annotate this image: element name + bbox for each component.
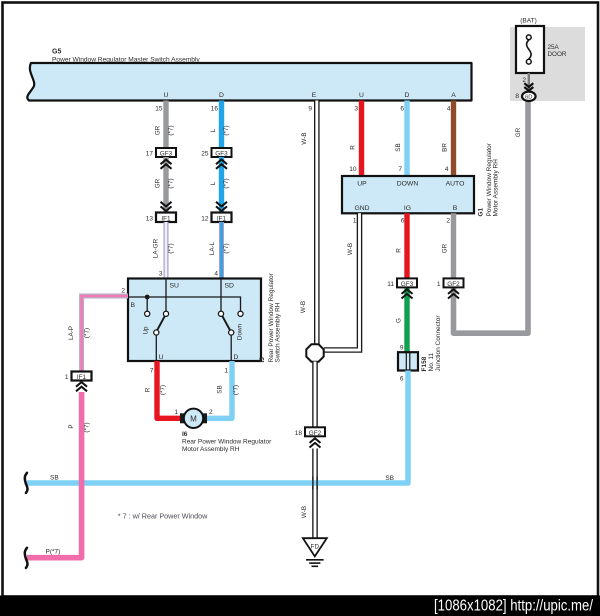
svg-text:(BAT): (BAT) bbox=[520, 18, 537, 25]
svg-text:R: R bbox=[145, 387, 152, 392]
chevrons down above IF1 12 bbox=[216, 202, 227, 211]
svg-text:Motor Assembly RH: Motor Assembly RH bbox=[493, 159, 500, 217]
svg-text:GF2: GF2 bbox=[447, 281, 460, 288]
svg-text:G1: G1 bbox=[478, 207, 485, 216]
svg-text:P: P bbox=[68, 424, 75, 428]
svg-text:7: 7 bbox=[398, 166, 402, 173]
junction node bbox=[306, 344, 323, 361]
W-B rails over SB crossing bbox=[313, 477, 317, 490]
svg-text:(*7): (*7) bbox=[223, 243, 230, 253]
pin 16 bbox=[211, 106, 219, 113]
svg-text:2: 2 bbox=[522, 77, 526, 84]
chevrons down above IF1 13 bbox=[161, 202, 172, 211]
chevrons up below GF3 11 bbox=[402, 289, 413, 298]
svg-text:I6: I6 bbox=[182, 431, 188, 438]
svg-text:AUTO: AUTO bbox=[446, 181, 465, 188]
svg-text:11: 11 bbox=[387, 281, 394, 288]
wire fuse to connector 6D bbox=[522, 73, 528, 92]
svg-text:9: 9 bbox=[400, 345, 404, 352]
svg-text:[1086x1082] http://upic.me/: [1086x1082] http://upic.me/ bbox=[434, 598, 594, 615]
chevrons up below GF3 17 bbox=[161, 160, 172, 169]
svg-text:GND: GND bbox=[354, 205, 369, 212]
svg-text:GF3: GF3 bbox=[401, 281, 414, 288]
wire W-B from band E9 to junction node bbox=[300, 101, 317, 345]
connector GF2 18 bbox=[295, 427, 325, 437]
motor pin 2 bbox=[209, 409, 213, 416]
svg-text:6: 6 bbox=[400, 106, 404, 113]
junction connector F158 bbox=[398, 352, 418, 370]
svg-text:(*7): (*7) bbox=[223, 178, 230, 188]
svg-text:LA-P: LA-P bbox=[68, 326, 75, 340]
F158 rotated designation bbox=[421, 315, 442, 372]
connector GF2 1 bbox=[437, 278, 464, 288]
svg-text:SB: SB bbox=[395, 143, 402, 151]
connector GF3 25 bbox=[201, 148, 231, 158]
svg-text:F158: F158 bbox=[421, 356, 428, 371]
svg-text:D: D bbox=[234, 354, 239, 361]
svg-text:L: L bbox=[210, 128, 217, 132]
svg-text:9: 9 bbox=[308, 106, 312, 113]
svg-text:10: 10 bbox=[349, 166, 357, 173]
motor pin 1 bbox=[174, 409, 178, 416]
svg-text:U: U bbox=[159, 354, 164, 361]
fuse 25A DOOR bbox=[516, 26, 567, 73]
connector oval 6D bbox=[515, 92, 535, 101]
pin 6 F158 bbox=[400, 376, 404, 383]
svg-text:A: A bbox=[451, 92, 456, 99]
wire W-B node to GF2 18 bbox=[312, 362, 318, 428]
connector IF1 13 bbox=[146, 213, 176, 223]
connector IF1 12 bbox=[201, 213, 231, 223]
svg-text:Rear Power Window Regulator: Rear Power Window Regulator bbox=[182, 439, 272, 446]
svg-text:SD: SD bbox=[225, 283, 235, 290]
svg-text:No. 11: No. 11 bbox=[428, 352, 435, 371]
svg-text:SB: SB bbox=[217, 385, 224, 393]
svg-text:1: 1 bbox=[65, 374, 69, 381]
wire LA-GR IF1 to switch pin3 bbox=[153, 222, 175, 279]
chevrons up below GF3 25 bbox=[216, 160, 227, 169]
switch box I5 Rear Power Window Regulator Switch Assembly RH bbox=[128, 279, 261, 362]
svg-text:16: 16 bbox=[211, 106, 219, 113]
svg-text:Down: Down bbox=[237, 323, 244, 340]
svg-text:IF1: IF1 bbox=[161, 216, 171, 223]
svg-text:12: 12 bbox=[201, 216, 209, 223]
svg-text:(*7): (*7) bbox=[168, 125, 175, 135]
svg-text:DOOR: DOOR bbox=[548, 51, 567, 58]
svg-text:G: G bbox=[396, 318, 403, 323]
svg-text:7: 7 bbox=[150, 368, 154, 375]
chevrons up below GF2 18 bbox=[310, 438, 321, 447]
svg-text:2: 2 bbox=[209, 409, 213, 416]
svg-text:6D: 6D bbox=[525, 94, 532, 100]
svg-text:LA-GR: LA-GR bbox=[153, 238, 160, 258]
pin 7 switch U bbox=[150, 368, 154, 375]
svg-text:6: 6 bbox=[400, 376, 404, 383]
svg-text:1: 1 bbox=[174, 409, 178, 416]
svg-text:2: 2 bbox=[121, 288, 125, 295]
ground FD bbox=[303, 538, 327, 566]
svg-text:E: E bbox=[312, 92, 317, 99]
break squiggle SB bbox=[25, 473, 28, 493]
wire SB F158 to left break bbox=[27, 371, 408, 484]
G5 title bbox=[52, 49, 200, 64]
svg-text:1: 1 bbox=[224, 368, 228, 375]
pin 6 IG bbox=[401, 218, 405, 225]
label Down bbox=[237, 323, 244, 340]
svg-text:6: 6 bbox=[401, 218, 405, 225]
svg-text:B: B bbox=[453, 205, 458, 212]
svg-text:17: 17 bbox=[146, 151, 154, 158]
wire R switch to motor bbox=[145, 361, 183, 418]
pin 2 B bbox=[446, 218, 450, 225]
svg-text:(*7): (*7) bbox=[84, 328, 91, 338]
svg-text:GR: GR bbox=[155, 178, 162, 188]
svg-text:GR: GR bbox=[442, 243, 449, 253]
svg-text:Up: Up bbox=[143, 326, 150, 335]
svg-text:1: 1 bbox=[437, 281, 441, 288]
svg-text:R: R bbox=[350, 145, 357, 150]
svg-text:DOWN: DOWN bbox=[397, 181, 419, 188]
solid arrows down above 6D bbox=[524, 83, 533, 91]
svg-text:(*7): (*7) bbox=[168, 178, 175, 188]
svg-text:3: 3 bbox=[159, 271, 163, 278]
wire L GF3 to IF1 bbox=[210, 157, 230, 213]
svg-text:FD: FD bbox=[311, 544, 320, 551]
svg-text:LA-L: LA-L bbox=[209, 241, 216, 255]
G1 rotated designation bbox=[478, 142, 500, 216]
svg-text:W-B: W-B bbox=[301, 132, 308, 144]
svg-text:(*7): (*7) bbox=[160, 385, 167, 395]
svg-text:(*7): (*7) bbox=[233, 385, 240, 395]
wire SB switch to motor bbox=[205, 361, 240, 418]
chevrons up below GF2 1 bbox=[448, 289, 459, 298]
I6 designation bbox=[182, 431, 272, 453]
svg-text:15: 15 bbox=[155, 106, 163, 113]
watermark bar bbox=[0, 596, 600, 616]
wire SB band D6 to G1 DOWN bbox=[395, 101, 407, 177]
svg-text:GR: GR bbox=[155, 125, 162, 135]
svg-text:Motor Assembly RH: Motor Assembly RH bbox=[182, 446, 240, 453]
wire W-B GF2 18 to ground FD bbox=[301, 449, 315, 540]
junction dot B bbox=[145, 295, 150, 300]
I5 rotated designation bbox=[259, 272, 281, 362]
note *7 w/ Rear Power Window bbox=[118, 512, 208, 521]
pin 15 bbox=[155, 106, 163, 113]
svg-text:D: D bbox=[405, 92, 410, 99]
svg-text:W-B: W-B bbox=[301, 506, 308, 518]
chevrons up below IF1 1 bbox=[76, 382, 87, 391]
pin 1 GND bbox=[353, 218, 357, 225]
pin 2 switch B bbox=[121, 288, 125, 295]
svg-text:U: U bbox=[359, 92, 364, 99]
pin 9 bbox=[308, 106, 312, 113]
svg-text:18: 18 bbox=[295, 430, 303, 437]
svg-text:8: 8 bbox=[515, 93, 519, 100]
wire P IF1 1 to bottom left break bbox=[27, 392, 91, 558]
svg-text:GR: GR bbox=[515, 127, 522, 137]
wire GR GF3 to IF1 bbox=[155, 157, 175, 213]
box G1 Power Window Regulator Motor Assembly RH bbox=[342, 176, 474, 213]
svg-text:4: 4 bbox=[214, 271, 218, 278]
svg-text:2: 2 bbox=[446, 218, 450, 225]
svg-text:4: 4 bbox=[445, 166, 449, 173]
wire R G1 IG to GF3 11 bbox=[396, 213, 408, 278]
wire BR band A4 to G1 AUTO bbox=[442, 101, 454, 177]
switch contacts bbox=[145, 311, 244, 335]
pin 3 bbox=[354, 106, 358, 113]
motor I6 bbox=[180, 409, 207, 428]
svg-text:I5: I5 bbox=[259, 357, 266, 363]
svg-text:UP: UP bbox=[357, 181, 367, 188]
wire LA-L IF1 to switch pin4 bbox=[209, 222, 230, 279]
svg-text:M: M bbox=[190, 414, 197, 423]
svg-text:* 7 : w/ Rear Power Window: * 7 : w/ Rear Power Window bbox=[118, 512, 208, 521]
svg-text:BR: BR bbox=[442, 143, 449, 152]
wire GR G1 B to GF2 1 bbox=[442, 213, 454, 278]
connector IF1 1 bbox=[65, 372, 92, 382]
svg-text:D: D bbox=[219, 92, 224, 99]
pin 4 bbox=[447, 106, 451, 113]
connector band G5 Power Window Regulator Master Switch Assembly bbox=[27, 63, 471, 101]
pin 6 bbox=[400, 106, 404, 113]
svg-text:L: L bbox=[210, 181, 217, 185]
svg-text:R: R bbox=[396, 248, 403, 253]
label Up bbox=[143, 326, 150, 335]
wire GR from band U15 to GF3 bbox=[155, 101, 175, 149]
svg-text:(*7): (*7) bbox=[84, 422, 91, 432]
svg-text:SB: SB bbox=[50, 475, 59, 482]
svg-text:4: 4 bbox=[447, 106, 451, 113]
svg-text:IG: IG bbox=[404, 205, 411, 212]
wire GR GF2 1 to fuse block loop bbox=[454, 100, 529, 333]
svg-text:13: 13 bbox=[146, 216, 154, 223]
connector GF3 11 bbox=[387, 278, 417, 288]
switch blade Down bbox=[222, 316, 230, 331]
connector GF3 17 bbox=[146, 148, 176, 158]
svg-text:GF2: GF2 bbox=[309, 430, 322, 437]
svg-text:U: U bbox=[164, 92, 169, 99]
svg-text:B: B bbox=[131, 302, 136, 309]
svg-text:G5: G5 bbox=[52, 49, 61, 56]
wire G green GF3 11 to F158 bbox=[396, 287, 408, 352]
wire W-B G1 GND to junction node bbox=[324, 213, 360, 350]
switch internal wiring bbox=[128, 279, 241, 362]
svg-text:P(*7): P(*7) bbox=[46, 549, 61, 556]
svg-text:1: 1 bbox=[353, 218, 357, 225]
wire LA-P from switch to IF1 1 bbox=[68, 296, 128, 372]
wire R band U3 to G1 UP bbox=[349, 101, 361, 177]
svg-text:IF1: IF1 bbox=[217, 216, 227, 223]
svg-text:25: 25 bbox=[201, 151, 209, 158]
svg-text:SU: SU bbox=[170, 283, 180, 290]
svg-text:GF3: GF3 bbox=[215, 151, 228, 158]
wire L from band D16 to GF3 bbox=[210, 101, 230, 149]
svg-text:W-B: W-B bbox=[300, 301, 307, 313]
label (BAT) bbox=[520, 18, 537, 25]
svg-text:(*7): (*7) bbox=[168, 243, 175, 253]
svg-text:Switch Assembly RH: Switch Assembly RH bbox=[274, 302, 281, 362]
break squiggle P bbox=[25, 548, 28, 568]
svg-text:SB: SB bbox=[385, 475, 394, 482]
svg-text:(*7): (*7) bbox=[223, 125, 230, 135]
svg-text:Junction Connector: Junction Connector bbox=[435, 315, 442, 372]
switch blade Up bbox=[157, 316, 165, 331]
pin 1 switch D bbox=[224, 368, 228, 375]
svg-text:W-B: W-B bbox=[347, 243, 354, 255]
fuse block shading bbox=[510, 27, 585, 101]
svg-text:3: 3 bbox=[354, 106, 358, 113]
svg-text:GF3: GF3 bbox=[160, 151, 173, 158]
svg-text:IF1: IF1 bbox=[77, 374, 87, 381]
